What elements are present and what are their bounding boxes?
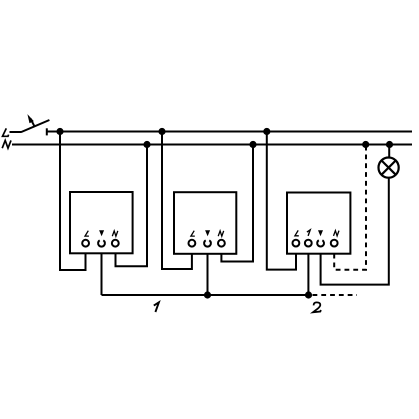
dashed wire extension (net 2)	[313, 294, 358, 296]
junction on N bus at lamp	[386, 141, 393, 148]
junction on N bus for unit 1	[143, 141, 150, 148]
wire U1 load terminal to bottom bus	[101, 254, 103, 296]
terminal label L of U2	[191, 231, 195, 236]
junction bottom bus at U3	[305, 291, 312, 298]
wire U3 load terminal to lamp	[321, 178, 389, 285]
wire N bus to U1 N terminal	[116, 145, 148, 267]
net label 2	[313, 302, 321, 312]
terminal L of U2	[189, 240, 196, 247]
junction on L bus for unit 3	[263, 128, 270, 135]
net label N	[2, 140, 11, 148]
junction on N bus for unit 2	[249, 141, 256, 148]
wire bottom bus (net 1)	[102, 294, 309, 296]
wire L bus to U1 L terminal	[60, 132, 86, 271]
lamp E1	[379, 158, 399, 178]
terminal label N of U2	[218, 231, 224, 236]
terminal load of U2 (open-top circle)	[204, 240, 211, 246]
terminal label 1 of U3	[307, 230, 310, 236]
net label 1	[154, 302, 159, 312]
wire U2 load terminal to bottom bus	[207, 254, 209, 295]
terminal N of U2	[218, 240, 225, 247]
switch S1	[10, 114, 50, 135]
terminal label arrow of U1	[99, 230, 104, 236]
wire N bus	[12, 144, 412, 146]
terminal N of U1	[112, 240, 119, 247]
switch unit U1 (box)	[70, 192, 133, 253]
wire U3 terminal 1 to bottom bus	[307, 254, 309, 295]
terminal label N of U3	[334, 231, 340, 236]
terminal label L of U1	[85, 231, 89, 236]
wire L bus to U3 L terminal	[267, 132, 296, 270]
dashed wire U3 N terminal to N bus	[334, 146, 366, 270]
net label L	[3, 128, 9, 136]
wire L bus	[47, 131, 412, 133]
wire N bus to U2 N terminal	[221, 145, 253, 262]
terminal 1 of U3	[305, 240, 312, 247]
terminal label arrow of U2	[205, 230, 210, 236]
switch unit U2 (box)	[174, 192, 236, 254]
terminal N of U3	[331, 240, 338, 247]
switch unit U3 (box)	[287, 193, 350, 254]
terminal label L of U3	[295, 230, 299, 235]
terminal load of U3 (open-top circle)	[317, 240, 324, 246]
terminal L of U1	[82, 240, 89, 247]
terminal label arrow of U3	[318, 230, 323, 236]
junction on L bus at switch output	[56, 128, 63, 135]
junction on L bus for unit 2	[158, 128, 165, 135]
wire N bus to lamp top	[388, 145, 390, 159]
terminal L of U3	[293, 240, 300, 247]
terminal label N of U1	[112, 231, 118, 236]
wire L bus to U2 L terminal	[162, 132, 192, 270]
terminal load of U1 (open-top circle)	[98, 240, 105, 246]
junction on N bus dashed branch	[362, 141, 369, 148]
junction bottom bus at U2	[204, 291, 211, 298]
